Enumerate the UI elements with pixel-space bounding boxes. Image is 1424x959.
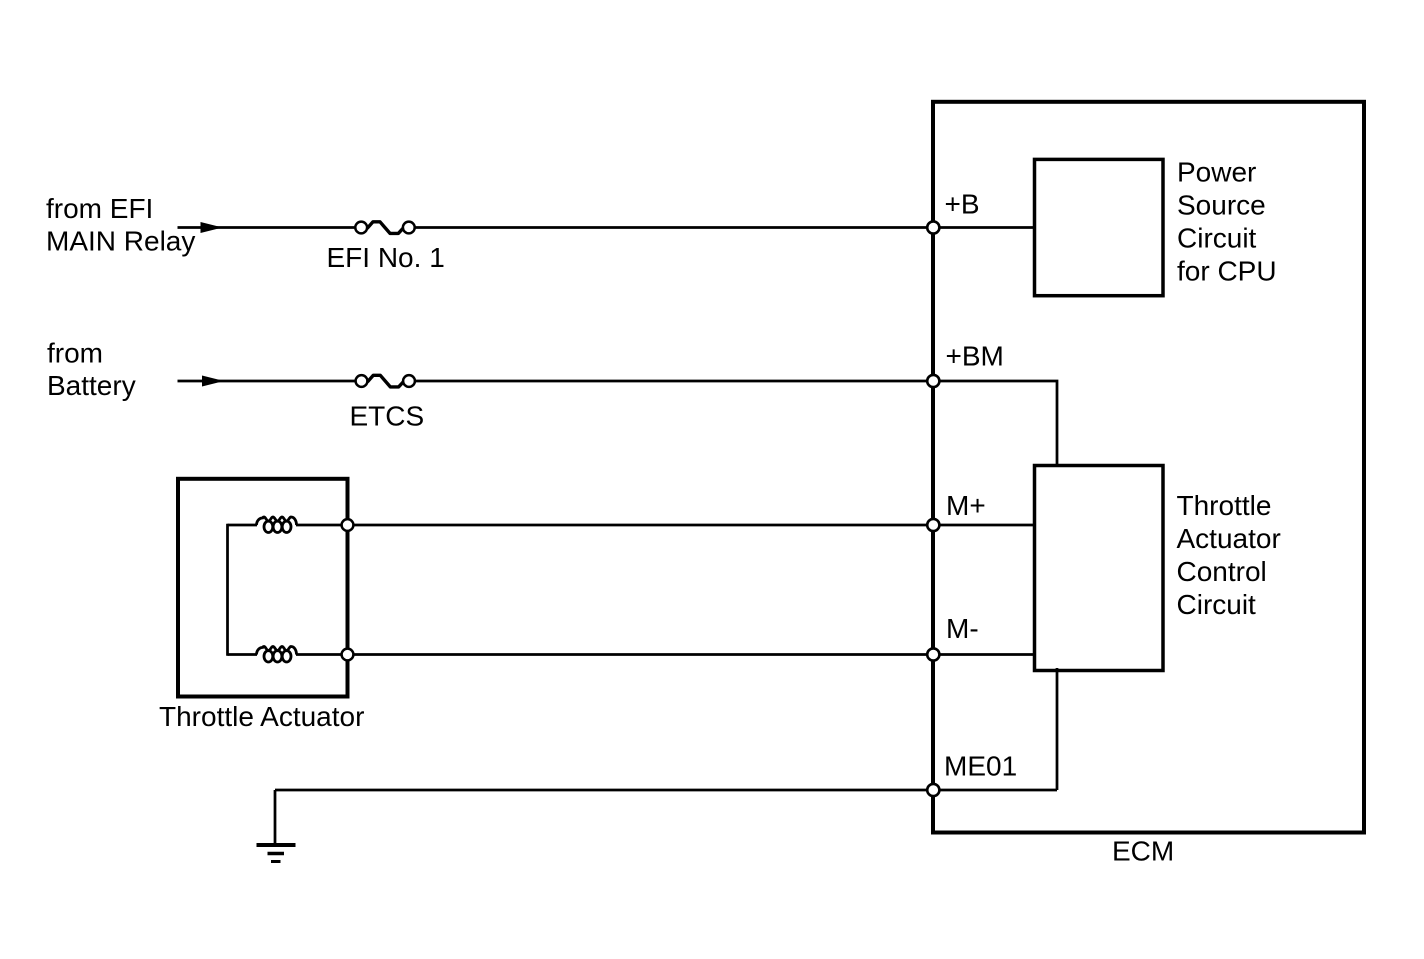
svg-text:+B: +B [945,189,980,220]
svg-text:Power: Power [1177,157,1256,188]
svg-text:from EFI: from EFI [46,193,153,224]
svg-text:M-: M- [946,613,979,644]
svg-text:from: from [47,338,103,369]
svg-text:Circuit: Circuit [1177,589,1257,620]
svg-text:Throttle: Throttle [1177,490,1272,521]
svg-text:ME01: ME01 [944,751,1017,782]
svg-text:Actuator: Actuator [1177,523,1281,554]
svg-text:ETCS: ETCS [350,401,425,432]
svg-text:Circuit: Circuit [1177,223,1257,254]
svg-text:EFI No. 1: EFI No. 1 [327,242,445,273]
svg-text:Battery: Battery [47,370,136,401]
svg-text:M+: M+ [946,490,986,521]
svg-text:for CPU: for CPU [1177,256,1277,287]
svg-text:ECM: ECM [1112,836,1174,867]
svg-text:Throttle Actuator: Throttle Actuator [159,701,364,732]
svg-text:Control: Control [1177,556,1267,587]
svg-text:Source: Source [1177,190,1266,221]
svg-text:MAIN Relay: MAIN Relay [46,226,195,257]
svg-text:+BM: +BM [946,341,1004,372]
